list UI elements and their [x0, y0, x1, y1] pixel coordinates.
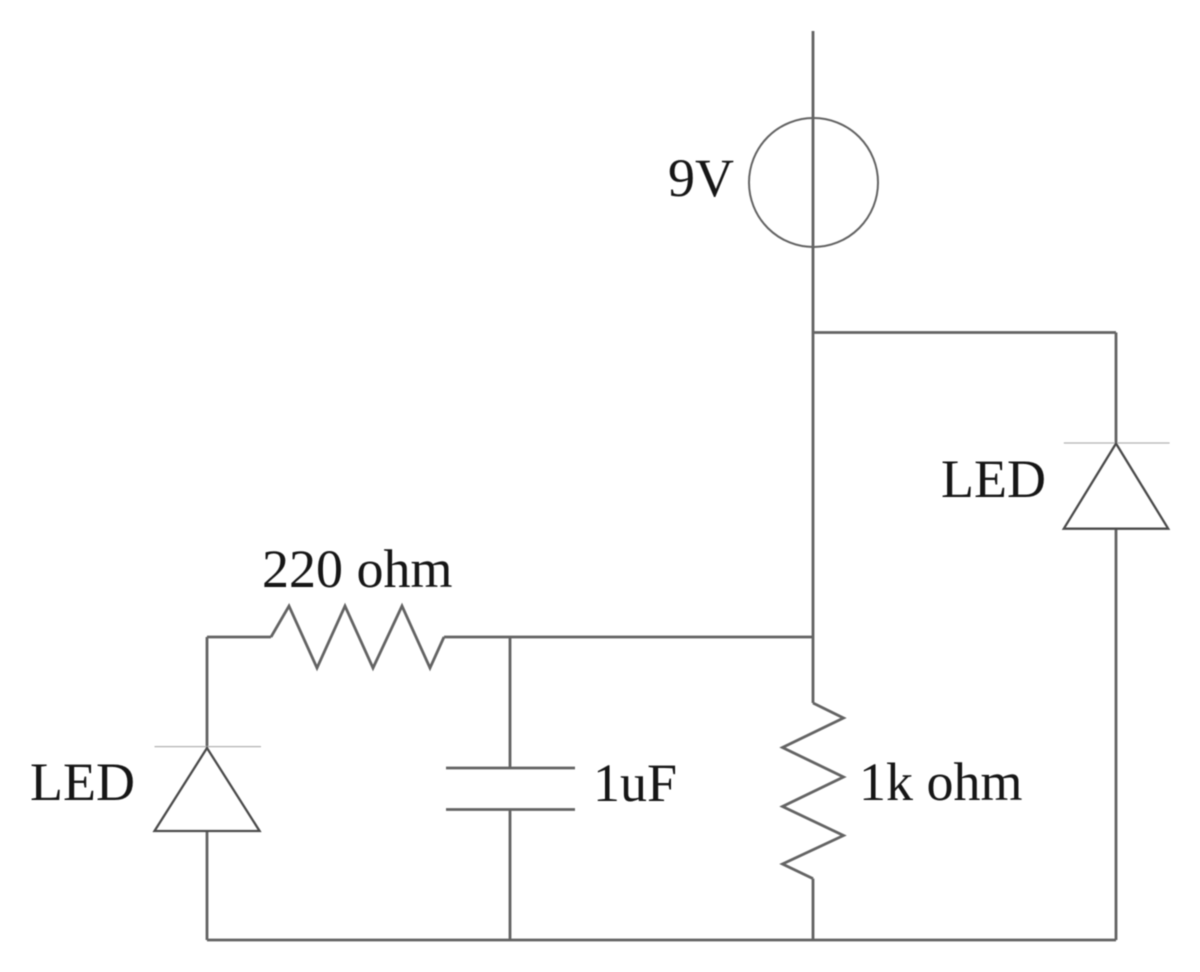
svg-text:LED: LED: [941, 449, 1046, 509]
wire: right vertical upper (to LED D2 anode bar): [1115, 333, 1118, 444]
resistor R2 1k ohm zigzag: [783, 703, 844, 879]
wire: right vertical lower (LED D2 to bottom rail): [1115, 529, 1118, 940]
svg-text:9V: 9V: [668, 148, 734, 208]
wire: left vertical lower (LED D1 to bottom rail): [206, 831, 209, 940]
wire: left vertical upper (node to LED D1 bar): [206, 637, 209, 748]
wire: left horizontal stub into resistor R1: [207, 636, 271, 639]
svg-text:220 ohm: 220 ohm: [262, 539, 453, 599]
LED D2 triangle: [1064, 444, 1168, 529]
svg-text:LED: LED: [30, 752, 135, 812]
svg-text:1uF: 1uF: [593, 753, 677, 813]
LED D2 cathode bar: [1064, 442, 1170, 444]
wire: bottom rail: [207, 939, 1116, 942]
LED D1 triangle: [155, 748, 260, 831]
LED D1 cathode bar: [155, 746, 262, 748]
capacitor C1 top plate: [446, 767, 575, 770]
wire: main vertical from top through source to 1k resistor: [812, 31, 815, 703]
wire: middle horizontal from R1 to main vertical: [444, 636, 813, 639]
wire: resistor R2 bottom lead: [812, 879, 815, 940]
wire: capacitor C1 bottom lead: [509, 810, 512, 941]
svg-text:1k ohm: 1k ohm: [859, 752, 1023, 812]
resistor R1 220 ohm zigzag: [271, 606, 444, 668]
capacitor C1 bottom plate: [446, 808, 575, 811]
voltage source V1 circle: [749, 118, 878, 247]
wire: capacitor C1 top lead: [509, 637, 512, 768]
wire: top branch horizontal to right: [813, 331, 1116, 334]
